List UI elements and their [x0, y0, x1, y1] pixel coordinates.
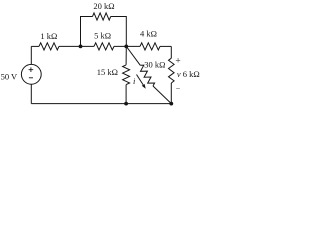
wire: 15k bottom lead — [125, 85, 127, 104]
wire: bottom line — [31, 103, 171, 105]
svg-text:v 6 kΩ: v 6 kΩ — [177, 69, 200, 79]
wire: between 5k and node B — [114, 45, 140, 47]
resistor R 4 kOhm — [140, 43, 160, 50]
svg-text:15 kΩ: 15 kΩ — [97, 67, 118, 77]
svg-text:30 kΩ: 30 kΩ — [144, 59, 165, 69]
node A junction dot — [79, 45, 83, 49]
bottom-right junction dot — [169, 102, 173, 106]
wire: between 1k and 5k (through node A) — [59, 45, 94, 47]
current arrow head — [142, 84, 146, 89]
wire: right branch top lead — [170, 46, 172, 58]
voltage source 50 V circle — [21, 64, 41, 84]
source plus sign — [29, 67, 34, 72]
wire: left branch above source — [30, 46, 32, 64]
wire: top branch riser right — [111, 17, 127, 47]
resistor R 30 kOhm (diagonal) — [140, 65, 154, 86]
wire: top branch riser left — [81, 17, 93, 47]
wire: diagonal bottom lead of 30k — [153, 86, 171, 104]
wire: left branch below source — [30, 84, 32, 103]
wire: right branch bottom lead — [170, 83, 172, 104]
wire: main horizontal line left segment — [31, 45, 39, 47]
resistor R 5 kOhm — [94, 43, 114, 50]
current arrow i — [137, 75, 144, 85]
svg-text:5 kΩ: 5 kΩ — [94, 30, 111, 40]
resistor R 15 kOhm — [123, 65, 130, 85]
resistor R 1 kOhm — [39, 43, 59, 50]
bottom junction dot under 15k — [124, 102, 128, 106]
wire: 4k to right corner — [160, 45, 171, 47]
svg-text:1 kΩ: 1 kΩ — [40, 31, 57, 41]
svg-text:20 kΩ: 20 kΩ — [93, 1, 114, 11]
svg-text:50 V: 50 V — [1, 72, 18, 82]
svg-text:4 kΩ: 4 kΩ — [140, 28, 157, 38]
wire: diagonal top lead of 30k — [126, 46, 140, 65]
svg-text:+: + — [175, 56, 180, 66]
source minus sign — [29, 77, 33, 79]
wire: 15k top lead — [125, 46, 127, 65]
svg-text:−: − — [176, 85, 181, 94]
resistor R 6 kOhm — [169, 58, 175, 83]
resistor R 20 kOhm — [93, 13, 111, 20]
node B junction dot — [124, 45, 128, 49]
